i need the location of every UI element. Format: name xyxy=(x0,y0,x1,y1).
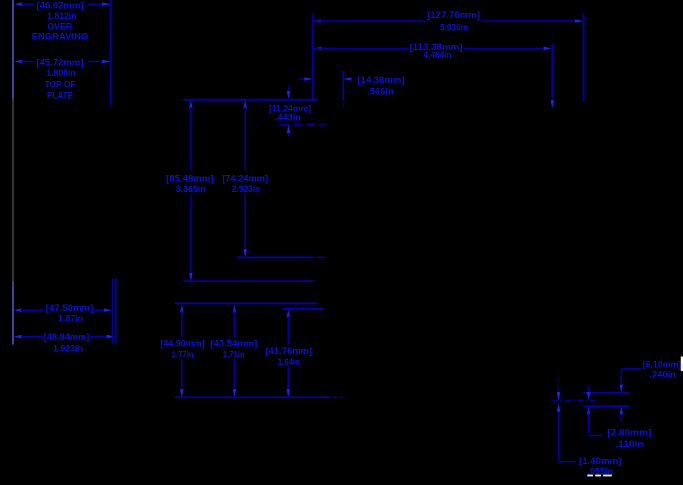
dim line 127.76 left segment xyxy=(313,20,427,22)
part edge line y=406.2 xyxy=(583,405,629,407)
extension line x=112.8 xyxy=(112,279,114,344)
leader vertical of dim 6.10mm xyxy=(620,369,622,386)
svg-text:[85.48mm]: [85.48mm] xyxy=(166,173,213,184)
svg-text:1.64in: 1.64in xyxy=(278,357,300,368)
extension line left (slate) bottom xyxy=(12,282,14,345)
arrow down of dim 41.76mm xyxy=(287,389,291,397)
vertical centerline x=557.9 xyxy=(557,377,559,401)
part edge line y=257.4 xyxy=(237,256,314,258)
dim line 48.84 left segment xyxy=(21,336,43,338)
leader horizontal of dim 6.10mm xyxy=(621,368,641,370)
dim line 45.72 left segment xyxy=(22,61,34,63)
arrow up of dim 44.90mm xyxy=(180,304,184,312)
tail above dim 2.80 top arrow xyxy=(588,387,590,394)
dash below extension x=343.2 xyxy=(342,103,344,108)
svg-text:[47.50mm]: [47.50mm] xyxy=(46,303,94,314)
dim line 47.50 left segment xyxy=(21,309,44,311)
svg-text:.240in: .240in xyxy=(649,369,676,380)
dim line 113.38 right segment xyxy=(464,47,546,49)
dim line 44.90 upper segment xyxy=(181,311,183,337)
svg-text:[43.54mm]: [43.54mm] xyxy=(210,338,257,349)
white highlight bar right of [6.10mm] xyxy=(681,357,683,372)
svg-text:1.71in: 1.71in xyxy=(223,349,245,360)
arrow up of dim 6.10mm xyxy=(620,406,624,414)
svg-text:.110in: .110in xyxy=(615,439,643,450)
part edge line y=99.8 xyxy=(183,99,318,101)
svg-text:[46.02mm]: [46.02mm] xyxy=(37,0,84,11)
tail above dim 1.40 top arrow xyxy=(558,391,560,395)
arrow down of dim 85.48mm xyxy=(189,273,193,281)
svg-text:1.77in: 1.77in xyxy=(172,349,194,360)
svg-text:.566in: .566in xyxy=(367,87,394,98)
arrow right of dim 45.72mm xyxy=(102,60,110,64)
part edge line A y=303.4 xyxy=(175,302,317,304)
arrow right of dim 113.38mm xyxy=(544,47,552,51)
svg-text:[45.72mm]: [45.72mm] xyxy=(37,57,84,68)
arrow down of dim 11.24mm xyxy=(287,91,291,99)
part edge line y=281.2 xyxy=(183,280,314,282)
arrow left-pointing of dim 14.38mm xyxy=(343,77,351,81)
arrow right of dim 127.76mm xyxy=(575,19,583,23)
dashed white underline under .055in xyxy=(587,475,612,477)
tail of dim 11.24 bottom arrow xyxy=(288,133,290,136)
dim line 113.38 left segment xyxy=(313,47,409,49)
extension line left (slate) top xyxy=(12,0,14,98)
arrow left of dim 113.38mm xyxy=(313,47,321,51)
dim line 43.54 upper segment xyxy=(234,311,236,337)
dash right of part edge y=257.4 xyxy=(317,256,325,258)
extension line x=343.2 xyxy=(342,71,344,100)
dim line 74.24 upper segment xyxy=(244,107,246,170)
svg-text:TOP OF: TOP OF xyxy=(45,79,76,90)
svg-text:.443in: .443in xyxy=(275,112,301,123)
leader horizontal of dim 1.40mm xyxy=(559,461,576,463)
arrow down of dim 74.24mm xyxy=(243,249,247,257)
horizontal centerline y=400.3 xyxy=(551,399,596,401)
arrow up of dim 43.54mm xyxy=(233,305,237,313)
part edge line B y=308.9 xyxy=(282,308,324,310)
arrow left of dim 45.72mm xyxy=(14,60,22,64)
svg-text:[127.76mm]: [127.76mm] xyxy=(427,10,480,21)
arrow left of dim 127.76mm xyxy=(313,19,321,23)
arrow left of dim 48.84mm xyxy=(14,335,22,339)
arrow up of dim 85.48mm xyxy=(189,100,193,108)
dim line 44.90 lower segment xyxy=(181,359,183,391)
extension line x=312.6 xyxy=(312,14,314,100)
arrow down of dim 6.10mm xyxy=(620,385,624,393)
svg-text:PLATE: PLATE xyxy=(47,91,73,102)
arrow up of dim 2.80mm xyxy=(587,407,591,415)
arrow right-pointing of dim 14.38mm xyxy=(304,77,312,81)
tail of dim 14.38 left arrow xyxy=(299,78,305,80)
svg-text:1.800in: 1.800in xyxy=(46,68,76,79)
svg-text:[74.24mm]: [74.24mm] xyxy=(222,173,268,184)
tail below extension x=552.3 xyxy=(551,99,553,102)
svg-text:ENGRAVING: ENGRAVING xyxy=(32,31,89,42)
svg-text:5.030in: 5.030in xyxy=(440,22,468,33)
arrow right of dim 46.02mm xyxy=(102,2,110,6)
arrow down of dim 43.54mm xyxy=(233,389,237,397)
leader vertical of dim 2.80mm xyxy=(588,414,590,434)
arrow up of dim 41.76mm xyxy=(287,309,291,317)
dim line 43.54 lower segment xyxy=(234,359,236,391)
svg-text:1.812in: 1.812in xyxy=(47,11,77,22)
dim line 41.76 lower segment xyxy=(287,366,289,391)
svg-text:[44.90mm]: [44.90mm] xyxy=(160,338,205,349)
arrow left of dim 46.02mm xyxy=(14,2,22,6)
part edge line y=393 xyxy=(583,392,629,394)
tail of dim 11.24 top arrow xyxy=(288,86,290,93)
tick at top of extension x=343.2 xyxy=(341,71,346,73)
dashed centerline y=124.5 xyxy=(280,124,326,126)
dashes right of part edge C xyxy=(333,396,343,398)
extension line x=115.8 xyxy=(115,279,117,344)
dim line 48.84 right segment xyxy=(90,336,108,338)
arrow down at x=552.3 xyxy=(551,100,555,108)
svg-text:[14.38mm]: [14.38mm] xyxy=(358,75,405,86)
dim line 46.02 right segment xyxy=(88,3,102,5)
dim line 74.24 lower segment xyxy=(244,194,246,250)
dim line 85.48 upper segment xyxy=(190,107,192,170)
arrow right of dim 47.50mm xyxy=(104,308,112,312)
dim line 45.72 right segment xyxy=(88,61,102,63)
arrow down of dim 2.80mm xyxy=(587,392,591,400)
leader horizontal of dim 2.80mm xyxy=(589,435,603,437)
extension line x=583.6 xyxy=(583,14,585,102)
arrow up of dim 74.24mm xyxy=(243,100,247,108)
tail below dim 6.10 bottom arrow xyxy=(620,414,622,421)
extension line x=552.3 xyxy=(551,44,553,99)
dim line 85.48 lower segment xyxy=(190,194,192,274)
part edge grey line xyxy=(12,98,14,282)
arrow up of dim 11.24mm xyxy=(287,125,291,133)
arrow down of dim 1.40mm xyxy=(557,392,561,400)
arrow down of dim 44.90mm xyxy=(180,389,184,397)
dim line 47.50 right segment xyxy=(94,309,105,311)
svg-text:2.923in: 2.923in xyxy=(232,184,260,195)
arrow up of dim 1.40mm xyxy=(557,403,561,411)
svg-text:1.923in: 1.923in xyxy=(53,343,83,354)
part edge line C y=397.3 xyxy=(175,396,331,398)
extension line x=110.5 xyxy=(110,0,112,105)
svg-text:[41.76mm]: [41.76mm] xyxy=(265,346,312,357)
svg-text:[2.80mm]: [2.80mm] xyxy=(607,428,651,439)
dim line 46.02 left segment xyxy=(22,3,34,5)
dim line 127.76 right segment xyxy=(481,20,577,22)
svg-text:4.464in: 4.464in xyxy=(424,50,452,61)
arrow left of dim 47.50mm xyxy=(14,308,22,312)
dim line 41.76 upper segment xyxy=(287,316,289,344)
svg-text:3.365in: 3.365in xyxy=(176,184,206,195)
svg-text:[48.84mm]: [48.84mm] xyxy=(44,332,90,343)
leader vertical of dim 1.40mm xyxy=(558,412,560,462)
arrow right of dim 48.84mm xyxy=(107,335,115,339)
svg-text:1.87in: 1.87in xyxy=(58,314,83,325)
